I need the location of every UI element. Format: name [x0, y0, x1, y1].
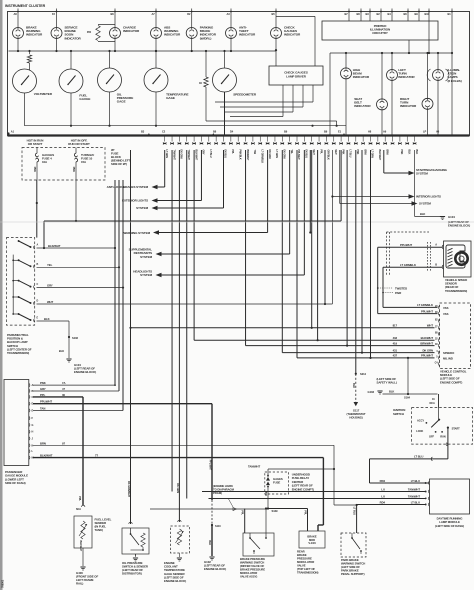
svg-text:C2: C2	[162, 130, 166, 134]
svg-text:F: F	[32, 417, 34, 420]
svg-text:E: E	[37, 317, 39, 320]
svg-text:DK GRN: DK GRN	[176, 483, 180, 493]
svg-text:B9: B9	[415, 12, 419, 16]
svg-text:H: H	[32, 431, 34, 434]
wire BRN to underhood center	[333, 445, 335, 505]
svg-text:OR START: OR START	[28, 142, 43, 146]
svg-text:DK GRN/WHT: DK GRN/WHT	[127, 481, 131, 498]
svg-text:PPL/WHT: PPL/WHT	[400, 243, 412, 247]
svg-text:4?: 4?	[62, 387, 65, 391]
svg-text:431: 431	[393, 348, 398, 352]
wire printed box to bus	[408, 40, 410, 53]
svg-text:7A: 7A	[62, 381, 65, 385]
svg-text:WHT: WHT	[334, 150, 337, 156]
svg-text:ACCY: ACCY	[417, 419, 424, 423]
driver output wires	[312, 85, 314, 102]
svg-text:INDICATOR: INDICATOR	[398, 75, 415, 79]
svg-text:TAN/WHT: TAN/WHT	[408, 487, 420, 491]
svg-text:PPL: PPL	[78, 496, 82, 501]
svg-text:GAGE: GAGE	[166, 96, 175, 100]
wire right section drop	[329, 53, 331, 136]
wire BLK/WHT from switch	[37, 247, 116, 249]
wire fuse 4 output	[36, 163, 38, 180]
svg-text:BLK/WHT: BLK/WHT	[40, 454, 53, 458]
svg-text:B6: B6	[404, 12, 408, 16]
svg-text:SIDE OF DASH): SIDE OF DASH)	[5, 481, 26, 485]
svg-text:G: G	[32, 424, 34, 427]
svg-text:B3: B3	[366, 12, 370, 16]
svg-text:1K: 1K	[199, 82, 202, 85]
svg-text:LT BLU: LT BLU	[414, 454, 423, 458]
wire PPL/WHT module to ground G102	[33, 403, 212, 405]
svg-text:VOLTMETER: VOLTMETER	[34, 92, 53, 96]
svg-text:YEL: YEL	[290, 150, 293, 155]
svg-text:PNK: PNK	[72, 167, 76, 172]
svg-text:FUSE: FUSE	[273, 480, 280, 484]
svg-text:HOUSING): HOUSING)	[349, 416, 362, 420]
svg-text:B9: B9	[324, 130, 328, 134]
svg-text:30: 30	[435, 343, 438, 346]
svg-text:G103: G103	[367, 390, 374, 394]
svg-text:S102: S102	[72, 336, 79, 340]
svg-text:ENGINE COMPT): ENGINE COMPT)	[440, 380, 462, 384]
wire drops to left arrows	[164, 150, 166, 187]
printed circuitry box	[322, 21, 438, 40]
wire PPL module to fuel sender	[33, 396, 83, 398]
ground G104 right	[414, 150, 416, 217]
svg-text:INDICATOR: INDICATOR	[239, 33, 256, 37]
svg-text:E: E	[32, 410, 34, 413]
svg-text:419: 419	[393, 341, 398, 345]
svg-text:PRGM): PRGM)	[213, 491, 222, 495]
wire BLK from switch to ground	[37, 320, 70, 322]
resistor left of speedometer	[205, 51, 207, 77]
svg-text:BLK: BLK	[352, 383, 355, 388]
twisted pair symbol	[386, 232, 388, 275]
park/neutral position switch box	[6, 238, 34, 326]
svg-text:RD4: RD4	[380, 479, 386, 483]
svg-text:LU: LU	[381, 487, 385, 491]
svg-text:LOCK: LOCK	[416, 429, 423, 433]
svg-text:350: 350	[87, 30, 92, 34]
svg-text:82: 82	[435, 319, 438, 322]
svg-text:(W/DRL): (W/DRL)	[200, 36, 212, 40]
left turn indicator	[391, 53, 393, 70]
indicator lamp ANTI-	[230, 12, 232, 28]
svg-text:LT BLU: LT BLU	[411, 479, 420, 483]
svg-text:PPL/WHT: PPL/WHT	[40, 400, 52, 404]
inline connector at VSS wires	[427, 242, 429, 272]
interior lights system arrows	[331, 150, 333, 197]
svg-text:SPEEDOMETER: SPEEDOMETER	[233, 93, 257, 97]
svg-text:B: B	[32, 390, 34, 393]
svg-text:SPEEDO: SPEEDO	[443, 351, 455, 355]
svg-text:PNK: PNK	[400, 150, 403, 155]
svg-text:VSS: VSS	[443, 306, 449, 310]
svg-text:ENGINE BLOCK): ENGINE BLOCK)	[164, 579, 186, 583]
VSS pin B wire LT GRN/BLK	[442, 265, 443, 269]
svg-text:B6: B6	[111, 12, 115, 16]
svg-text:LU: LU	[381, 494, 385, 498]
svg-text:PPL/WHT: PPL/WHT	[209, 460, 212, 471]
svg-text:DK BLU: DK BLU	[224, 150, 227, 159]
gauge bottom bus	[24, 93, 26, 126]
headlights system arrow	[156, 273, 162, 277]
svg-text:LT GRN/BLK: LT GRN/BLK	[417, 303, 433, 307]
svg-text:BLK: BLK	[420, 212, 425, 216]
right bus wire	[330, 52, 452, 54]
svg-text:D4: D4	[230, 130, 234, 134]
gauge link lines	[206, 120, 337, 122]
svg-text:A1: A1	[11, 130, 15, 134]
svg-text:27: 27	[435, 325, 438, 328]
svg-text:BLK: BLK	[59, 349, 64, 353]
gauge OIL	[98, 68, 122, 92]
wire fuel sender to ground	[82, 548, 84, 566]
svg-text:WHT: WHT	[47, 300, 53, 304]
svg-text:10A: 10A	[42, 160, 48, 164]
check gauges indicator lamp	[275, 12, 277, 17]
svg-text:E1: E1	[338, 130, 342, 134]
svg-text:DK GRN: DK GRN	[283, 150, 286, 159]
svg-text:BRN: BRN	[385, 150, 388, 155]
svg-text:WHT: WHT	[312, 150, 315, 156]
svg-text:DK GRN: DK GRN	[422, 348, 433, 352]
svg-text:GRY: GRY	[40, 387, 46, 391]
svg-text:TANK): TANK)	[95, 528, 103, 532]
svg-text:B9: B9	[284, 130, 288, 134]
vehicle control module box	[440, 303, 471, 369]
indicator lamp CHARGE	[114, 12, 116, 28]
svg-text:LT BLU: LT BLU	[209, 150, 212, 158]
svg-text:F2: F2	[52, 12, 56, 16]
svg-text:ANTI-LOCK BRAKES SYSTEM: ANTI-LOCK BRAKES SYSTEM	[107, 185, 149, 189]
svg-text:INDICATOR: INDICATOR	[284, 33, 301, 37]
svg-text:PNK: PNK	[40, 381, 46, 385]
svg-text:GRY: GRY	[202, 150, 205, 155]
svg-text:B: B	[37, 263, 39, 266]
indicator lamp PARKING	[191, 12, 193, 28]
svg-text:LT GRN/BLK: LT GRN/BLK	[260, 150, 263, 164]
VSS pin A wire PPL/WHT	[442, 245, 443, 249]
park/neutral WHT link	[37, 303, 333, 305]
svg-text:GRY: GRY	[47, 283, 53, 287]
wire BRN module	[33, 444, 334, 446]
wire S129 to modulator valve	[268, 508, 308, 510]
svg-text:TAN: TAN	[253, 150, 256, 155]
svg-text:SAFETY WALL): SAFETY WALL)	[377, 381, 397, 385]
svg-text:INDICATOR: INDICATOR	[65, 36, 82, 40]
svg-text:J: J	[32, 438, 34, 441]
svg-text:PPL: PPL	[40, 393, 46, 397]
lamp bus wire	[9, 50, 277, 52]
svg-text:K: K	[32, 444, 34, 447]
passenger gauge module box	[4, 380, 29, 466]
svg-text:PPL: PPL	[241, 510, 244, 515]
wire TAN module	[33, 410, 123, 412]
svg-text:PPL/WHT: PPL/WHT	[421, 309, 433, 313]
anti-lock brakes system arrow	[152, 185, 158, 189]
gauge SPEEDOMETER	[213, 68, 237, 92]
svg-text:BLK/WHT: BLK/WHT	[421, 336, 434, 340]
svg-text:G104: G104	[448, 215, 455, 219]
svg-text:BRN/WHT: BRN/WHT	[420, 341, 433, 345]
switch contact D	[18, 296, 20, 298]
svg-text:NCA: NCA	[430, 402, 435, 405]
svg-text:B2: B2	[377, 12, 381, 16]
svg-text:PNK: PNK	[264, 491, 267, 496]
svg-text:32: 32	[435, 338, 438, 341]
svg-text:SYSTEM: SYSTEM	[416, 172, 428, 176]
svg-text:B8: B8	[357, 12, 361, 16]
svg-text:RUN: RUN	[440, 435, 446, 439]
VCM wires from twisted pair	[378, 313, 438, 315]
svg-text:C: C	[37, 283, 39, 286]
svg-text:B7: B7	[345, 12, 349, 16]
svg-text:INDICATOR: INDICATOR	[164, 33, 181, 37]
svg-text:S164: S164	[404, 396, 411, 400]
indicator lamp BRAKE	[17, 12, 19, 28]
switch contact B	[18, 259, 20, 261]
wire S129 to brake pressure switch	[245, 508, 268, 510]
svg-text:SIDE OF I/P): SIDE OF I/P)	[111, 162, 127, 166]
svg-text:PNK: PNK	[33, 167, 37, 172]
svg-text:PPL: PPL	[319, 150, 322, 155]
svg-text:TAN: TAN	[40, 407, 45, 411]
svg-text:LT GRN: LT GRN	[165, 150, 168, 159]
svg-text:LT BLU: LT BLU	[411, 500, 420, 504]
svg-text:BLK/WHT: BLK/WHT	[194, 150, 197, 161]
resistor above voltmeter	[27, 55, 31, 63]
svg-text:TRANSMISSION): TRANSMISSION)	[7, 351, 29, 355]
svg-text:OFF: OFF	[429, 435, 434, 439]
indicator lamp ABS	[155, 12, 157, 28]
indicator lamp SERVICE	[56, 12, 58, 28]
svg-text:4: 4	[436, 350, 438, 353]
high beam indicator	[345, 53, 347, 68]
brake pressure warning switch	[243, 533, 274, 556]
feeder wire y221	[44, 220, 341, 222]
svg-text:LT BLU: LT BLU	[353, 507, 356, 515]
svg-text:LT GRN/BLK: LT GRN/BLK	[400, 263, 416, 267]
wire to ground G117	[355, 150, 357, 374]
mid horizontals to VCM	[194, 339, 434, 341]
check gauges lamp driver box	[269, 66, 323, 85]
cluster top pin stubs	[17, 9, 19, 12]
long wire drops	[193, 150, 195, 340]
svg-text:RUN OR START: RUN OR START	[68, 142, 90, 146]
gauge VOLTMETER	[13, 69, 37, 93]
wire below gages fuse	[267, 487, 269, 509]
cluster connector socket row	[164, 136, 166, 142]
svg-text:TAN/WHT: TAN/WHT	[187, 150, 190, 161]
gauge feed wires	[24, 51, 26, 69]
svg-text:LAMP DRIVER: LAMP DRIVER	[286, 74, 307, 78]
svg-text:BLK/WHT: BLK/WHT	[378, 150, 381, 161]
svg-text:16: 16	[432, 398, 435, 401]
illumination lamps	[437, 53, 439, 70]
ignition switch contacts	[438, 394, 440, 420]
svg-text:INSTRUMENT CLUSTER: INSTRUMENT CLUSTER	[5, 4, 46, 8]
svg-text:INDICATOR: INDICATOR	[353, 75, 370, 79]
svg-text:BLK/WHT: BLK/WHT	[79, 541, 82, 552]
svg-text:BRN: BRN	[40, 441, 46, 445]
svg-text:D: D	[425, 482, 427, 485]
svg-text:TAN/WHT: TAN/WHT	[172, 150, 175, 161]
svg-text:B6: B6	[213, 130, 217, 134]
daytime running lamp module box	[430, 479, 470, 514]
wire GRY from switch	[37, 287, 124, 289]
svg-text:SYSTEM: SYSTEM	[140, 273, 152, 277]
svg-text:BLK: BLK	[44, 317, 50, 321]
svg-text:PEDAL SUPPORT): PEDAL SUPPORT)	[341, 572, 365, 576]
svg-text:H8: H8	[368, 130, 372, 134]
svg-text:PPL: PPL	[231, 150, 234, 155]
svg-text:START: START	[452, 427, 461, 431]
svg-text:817: 817	[393, 324, 398, 328]
svg-text:S214: S214	[360, 372, 367, 376]
svg-text:A6: A6	[436, 130, 440, 134]
svg-text:WARNING SYSTEM: WARNING SYSTEM	[123, 231, 150, 235]
additional socket wire drops	[309, 150, 311, 233]
svg-text:L: L	[32, 450, 34, 453]
wire BLK/WHT module	[33, 457, 323, 459]
svg-text:EXTERIOR LIGHTS: EXTERIOR LIGHTS	[122, 199, 148, 203]
switch common link	[12, 255, 14, 314]
svg-text:INDICATOR: INDICATOR	[400, 104, 417, 108]
svg-text:VSS: VSS	[443, 312, 449, 316]
warning system arrow	[153, 230, 159, 234]
wire BLK/WHT to modulator	[322, 458, 324, 525]
switch contact C	[18, 280, 20, 282]
svg-text:RAIL): RAIL)	[76, 582, 83, 586]
engine harness connector	[150, 508, 268, 510]
switch contact A	[18, 240, 20, 242]
svg-text:TAN/WHT: TAN/WHT	[248, 465, 260, 469]
underhood fuse-relay center	[265, 472, 289, 494]
fuse GAUGES 4 10A	[36, 148, 38, 153]
svg-text:YEL: YEL	[47, 263, 53, 267]
park brake warning switch	[341, 533, 366, 557]
wire PNK module	[33, 384, 115, 386]
svg-text:A3: A3	[227, 12, 231, 16]
vehicle speed sensor	[444, 241, 472, 277]
svg-text:D2: D2	[187, 12, 191, 16]
svg-text:GRY/BLK: GRY/BLK	[327, 150, 330, 160]
svg-text:A: A	[32, 384, 34, 387]
svg-text:ENGINE BLOCK): ENGINE BLOCK)	[448, 224, 470, 228]
svg-text:GAGE: GAGE	[117, 100, 126, 104]
svg-text:BLK: BLK	[208, 540, 211, 545]
wire fuse 10 output	[75, 163, 77, 221]
svg-text:BLK: BLK	[389, 390, 394, 394]
speedometer drop wire	[224, 92, 226, 136]
svg-text:A7: A7	[152, 12, 156, 16]
starting/charging system arrow	[383, 150, 385, 173]
svg-text:LT GRN: LT GRN	[275, 150, 278, 159]
wires TAN/WHT to DRL	[202, 491, 427, 493]
svg-text:PNK/BLK: PNK/BLK	[238, 150, 241, 160]
svg-text:A: A	[37, 244, 39, 247]
svg-text:ENGINE COMPT): ENGINE COMPT)	[292, 487, 314, 491]
svg-text:433: 433	[393, 336, 398, 340]
wire to park brake switch	[334, 504, 357, 506]
svg-text:ENGINE BLOCK): ENGINE BLOCK)	[204, 567, 226, 571]
gauge TEMPERATURE	[144, 68, 168, 92]
svg-text:88: 88	[435, 332, 438, 335]
svg-text:BLK: BLK	[415, 150, 418, 155]
svg-text:SYSTEM: SYSTEM	[140, 255, 152, 259]
svg-text:TRANSMISSION): TRANSMISSION)	[297, 571, 318, 575]
svg-text:INTERIOR LIGHTS: INTERIOR LIGHTS	[416, 195, 441, 199]
wire ignition to DRL	[447, 428, 449, 459]
svg-text:A9: A9	[383, 130, 387, 134]
svg-text:B: B	[435, 264, 437, 267]
svg-text:TRANSMISSION): TRANSMISSION)	[445, 289, 467, 293]
exterior lights system arrows	[152, 198, 158, 202]
svg-text:B4: B4	[388, 12, 392, 16]
right turn indicator	[427, 53, 429, 98]
svg-text:S129: S129	[272, 509, 279, 513]
svg-text:PAIR: PAIR	[395, 291, 401, 295]
svg-text:CIRCUITRY: CIRCUITRY	[372, 31, 388, 35]
seat belt indicator	[381, 53, 383, 99]
svg-text:LT BLU: LT BLU	[349, 150, 352, 158]
svg-text:BRN/WHT: BRN/WHT	[246, 150, 249, 161]
svg-text:V-1/16: V-1/16	[308, 541, 316, 545]
svg-text:NCA: NCA	[76, 508, 81, 511]
svg-text:RD4: RD4	[380, 500, 386, 504]
wire DRL row E	[357, 504, 427, 506]
svg-text:C4: C4	[435, 362, 439, 365]
rear brake pressure modulator valve	[299, 531, 325, 548]
svg-text:ENGINE BLOCK): ENGINE BLOCK)	[74, 370, 96, 374]
svg-text:BRN: BRN	[363, 150, 366, 155]
svg-text:B3: B3	[141, 130, 145, 134]
wire GRY module	[33, 390, 119, 392]
resistor by charge indicator	[98, 24, 115, 26]
svg-text:PPL/WHT: PPL/WHT	[421, 354, 433, 358]
svg-text:VALVE ASSY): VALVE ASSY)	[240, 575, 257, 579]
svg-text:BLK: BLK	[407, 150, 410, 155]
svg-text:PNK: PNK	[341, 150, 344, 155]
svg-text:INDICATOR: INDICATOR	[26, 33, 43, 37]
svg-text:B1: B1	[448, 12, 452, 16]
svg-text:DK GRN: DK GRN	[268, 150, 271, 159]
svg-text:437: 437	[393, 354, 398, 358]
svg-text:S110: S110	[215, 524, 221, 528]
svg-text:768502: 768502	[0, 579, 4, 588]
svg-text:PPL: PPL	[304, 510, 307, 515]
svg-text:5: 5	[436, 355, 438, 358]
svg-text:TAN/WHT: TAN/WHT	[408, 494, 420, 498]
svg-text:BLK/WHT: BLK/WHT	[48, 244, 61, 248]
svg-text:LT GRN: LT GRN	[371, 150, 374, 159]
svg-text:SWITCH: SWITCH	[393, 412, 404, 416]
svg-text:WHT: WHT	[427, 324, 433, 328]
svg-text:GAUGE: GAUGE	[79, 97, 90, 101]
switch contact E	[18, 313, 20, 315]
svg-text:DISTRIBUTOR): DISTRIBUTOR)	[122, 572, 142, 576]
svg-text:A8: A8	[14, 12, 18, 16]
svg-text:LP: LP	[423, 130, 427, 134]
svg-text:(8 BULBS): (8 BULBS)	[448, 79, 462, 83]
svg-text:(LEFT SIDE OF DASH): (LEFT SIDE OF DASH)	[435, 524, 464, 528]
supplemental restraints system arrow	[156, 252, 162, 256]
fuse TURN B/U 10 15A	[75, 148, 77, 153]
wire YEL from switch	[37, 266, 120, 268]
svg-text:PNK: PNK	[356, 150, 359, 155]
